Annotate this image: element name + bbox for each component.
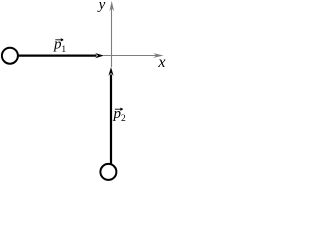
x axis arrowhead — [153, 53, 163, 58]
vector p2 arrowhead — [108, 67, 113, 76]
vector p1 shaft — [18, 54, 97, 56]
svg-text:x: x — [157, 54, 165, 71]
vector p2 shaft — [110, 75, 112, 165]
svg-text:1: 1 — [61, 45, 66, 55]
y axis — [111, 4, 113, 67]
x axis — [104, 55, 162, 57]
label p1 — [53, 37, 66, 55]
svg-text:2: 2 — [121, 114, 126, 124]
y axis arrowhead — [109, 1, 114, 11]
vector p1 arrowhead — [95, 53, 104, 58]
label p2 — [113, 106, 127, 124]
svg-text:y: y — [97, 0, 106, 13]
ball 2 (bottom circle) — [100, 164, 116, 180]
ball 1 (left circle) — [2, 48, 18, 64]
